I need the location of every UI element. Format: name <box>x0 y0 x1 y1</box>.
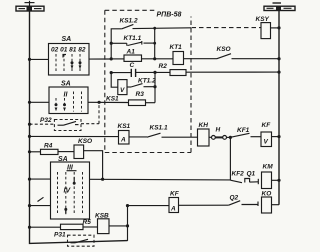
svg-text:SA: SA <box>62 36 72 43</box>
svg-text:KF: KF <box>170 191 180 198</box>
svg-text:KT1.1: KT1.1 <box>124 35 142 42</box>
svg-text:KF1: KF1 <box>237 127 250 134</box>
svg-text:KS1: KS1 <box>118 123 131 130</box>
svg-text:KS1.2: KS1.2 <box>120 18 138 25</box>
svg-text:Q1: Q1 <box>247 171 256 178</box>
svg-text:V: V <box>120 87 125 94</box>
svg-text:A: A <box>170 206 176 213</box>
svg-text:R3: R3 <box>136 91 145 98</box>
svg-text:V: V <box>264 138 269 145</box>
svg-text:R5: R5 <box>83 219 92 226</box>
svg-text:KT1.2: KT1.2 <box>138 78 156 85</box>
svg-text:KH: KH <box>199 122 209 129</box>
svg-text:KS1: KS1 <box>106 96 119 103</box>
svg-text:KT1: KT1 <box>170 44 183 51</box>
svg-text:Q2: Q2 <box>230 195 239 202</box>
svg-text:KM: KM <box>263 164 274 171</box>
svg-text:R2: R2 <box>159 63 168 70</box>
svg-text:02 01 81 82: 02 01 81 82 <box>51 47 86 53</box>
svg-text:KS1.1: KS1.1 <box>150 125 168 132</box>
svg-text:C: C <box>130 62 135 69</box>
svg-text:KF: KF <box>262 122 272 129</box>
svg-text:P32: P32 <box>40 117 52 124</box>
svg-text:KSO: KSO <box>217 46 231 53</box>
svg-text:KSO: KSO <box>78 138 92 145</box>
svg-text:H: H <box>216 127 221 134</box>
svg-text:R4: R4 <box>44 143 53 150</box>
svg-text:A: A <box>120 137 126 144</box>
svg-text:PПB-58: PПB-58 <box>157 12 182 19</box>
svg-text:P31: P31 <box>54 232 66 239</box>
svg-text:KSY: KSY <box>256 16 270 23</box>
svg-text:KF2: KF2 <box>232 171 245 178</box>
